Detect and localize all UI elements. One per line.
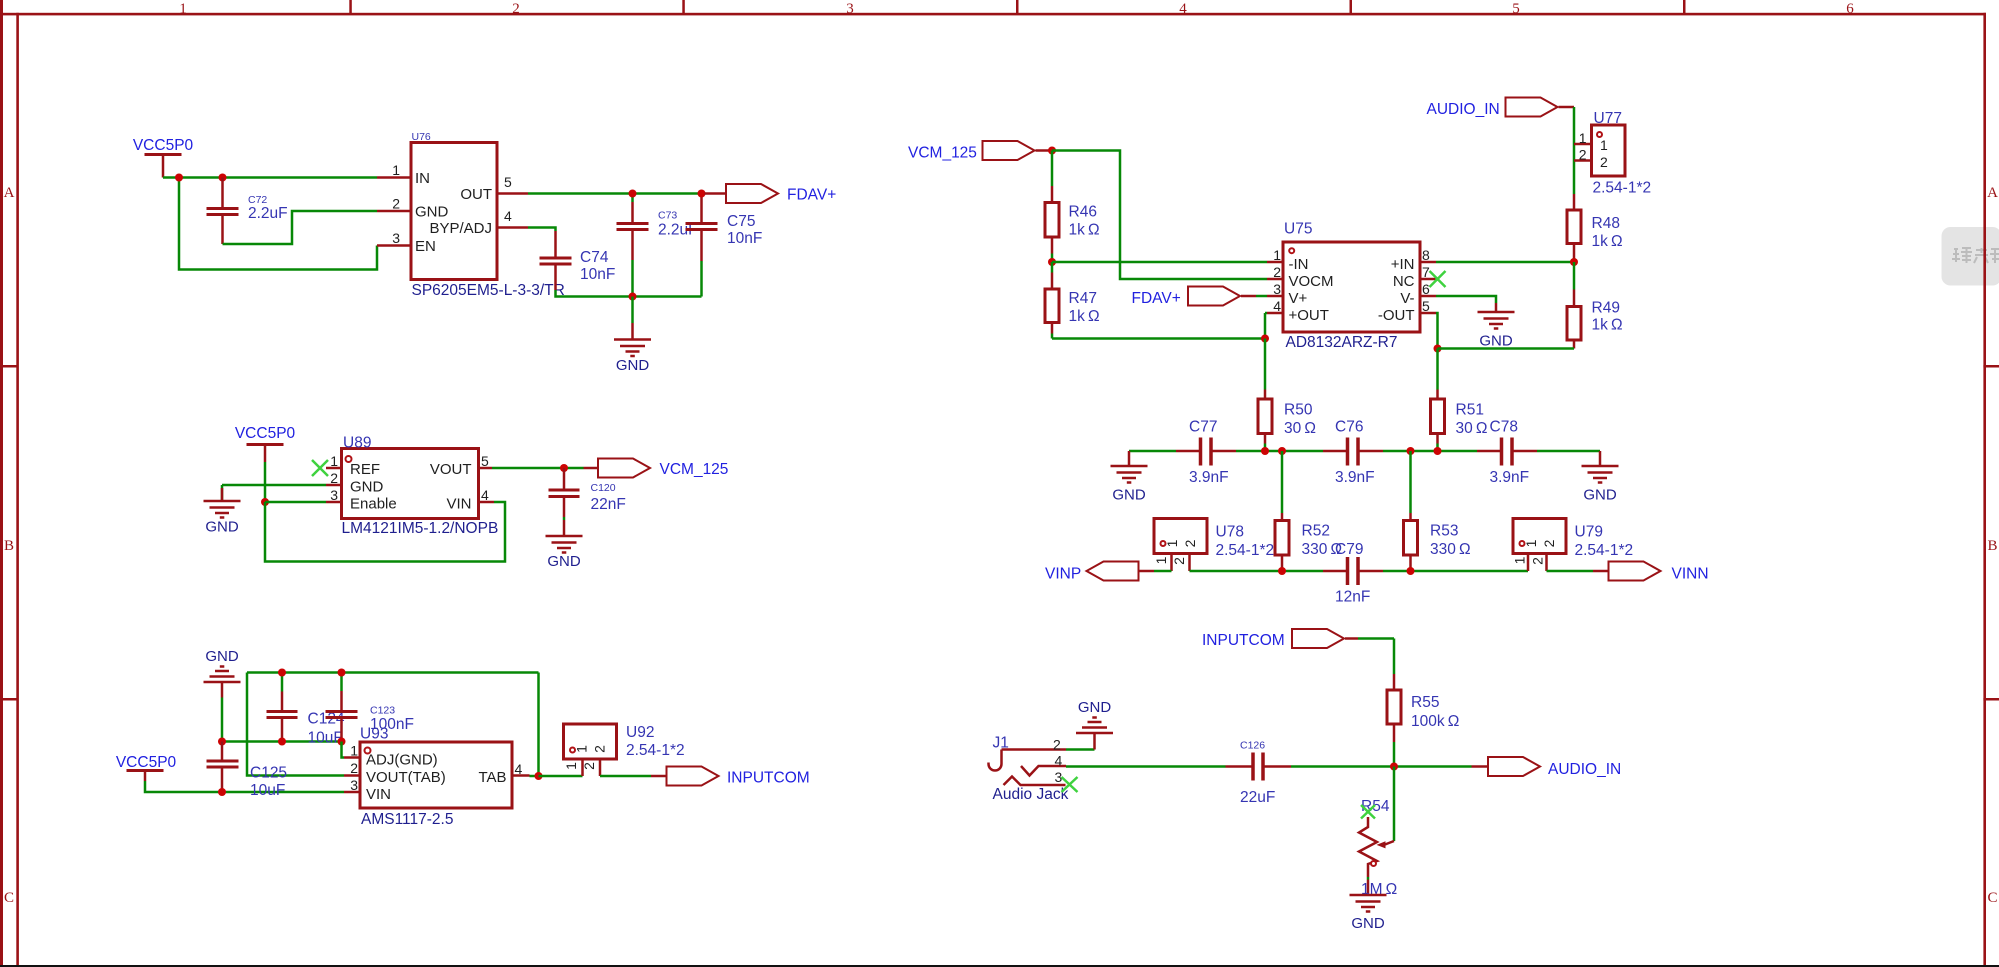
svg-text:R51: R51 (1456, 402, 1484, 419)
svg-text:3: 3 (392, 230, 400, 246)
ground GND (U89) (204, 488, 241, 536)
svg-text:INPUTCOM: INPUTCOM (1202, 632, 1285, 649)
wire GND to U89 pin2 (222, 485, 326, 500)
op-amp U93 (AMS1117-2.5) (344, 726, 530, 829)
svg-text:+IN: +IN (1391, 256, 1415, 273)
svg-text:4: 4 (1273, 298, 1281, 314)
port FDAV+ (output) (705, 184, 837, 204)
svg-text:C123: C123 (370, 705, 395, 717)
svg-text:GND: GND (1078, 699, 1112, 716)
wire INPUTCOM down to R55 (1393, 639, 1396, 675)
svg-text:GND: GND (415, 204, 449, 221)
wire VCC5P0 to VIN (145, 781, 344, 792)
ground GND (bus left) (1111, 451, 1148, 504)
svg-text:FDAV+: FDAV+ (787, 187, 836, 204)
svg-text:GND: GND (1479, 333, 1513, 350)
svg-text:R53: R53 (1430, 523, 1458, 540)
zone tick top 3/4 (1016, 0, 1019, 14)
svg-text:2: 2 (392, 196, 400, 212)
svg-text:R46: R46 (1069, 204, 1097, 221)
svg-text:VOUT: VOUT (430, 461, 472, 478)
junction bus/R52 (1278, 447, 1286, 455)
svg-text:2: 2 (350, 760, 358, 776)
svg-text:ADJ(GND): ADJ(GND) (366, 752, 438, 769)
frame inner right border redraw over toast (1983, 227, 1986, 286)
junction gnd bus (629, 293, 637, 301)
wire +OUT bus (1052, 313, 1267, 339)
svg-text:2.54-1*2: 2.54-1*2 (1216, 542, 1275, 559)
svg-text:2: 2 (581, 762, 597, 770)
power flag VCC5P0 (top-left) (133, 137, 194, 178)
no-connect X on U89 pin1 REF (312, 460, 328, 476)
svg-text:C126: C126 (1240, 740, 1265, 752)
svg-text:TAB: TAB (478, 769, 506, 786)
resistor R53 330R (1404, 451, 1471, 571)
connector U92 2.54-1*2 (563, 724, 685, 776)
svg-text:30 Ω: 30 Ω (1284, 420, 1316, 437)
zone tick right B/C (1983, 698, 1999, 701)
port VINP (output, tip left) (1045, 562, 1154, 583)
resistor R52 330R (1275, 451, 1342, 571)
svg-text:C120: C120 (591, 482, 616, 494)
svg-text:3: 3 (330, 487, 338, 503)
junction lineB/GND stem (218, 738, 226, 746)
svg-text:+OUT: +OUT (1289, 307, 1329, 324)
svg-text:3: 3 (846, 1, 854, 17)
svg-text:3: 3 (1273, 281, 1281, 297)
wire VINP to U78 pin1 (1154, 570, 1172, 573)
wire gnd line B (222, 740, 342, 743)
wire GND stem to bus (221, 698, 224, 742)
svg-text:INPUTCOM: INPUTCOM (727, 770, 810, 787)
port VCM_125 (input) (908, 141, 1052, 162)
svg-text:GND: GND (350, 479, 384, 496)
capacitor C74 10nF (540, 231, 616, 290)
svg-text:2: 2 (1600, 154, 1608, 170)
svg-text:1: 1 (574, 745, 590, 753)
svg-text:AD8132ARZ-R7: AD8132ARZ-R7 (1286, 334, 1398, 351)
junction gnd/C124 top (278, 669, 286, 677)
svg-text:VIN: VIN (366, 786, 391, 803)
svg-text:IN: IN (415, 170, 430, 187)
svg-text:REF: REF (350, 461, 380, 478)
zone tick left B/C (0, 698, 17, 701)
power flag VCC5P0 (U93) (116, 754, 177, 781)
wire VOUT to port (492, 467, 584, 470)
resistor R55 100k (1387, 674, 1459, 767)
svg-text:GND: GND (1583, 487, 1617, 504)
svg-text:B: B (1987, 538, 1997, 554)
svg-text:VINN: VINN (1672, 566, 1709, 583)
resistor R48 1k (1567, 194, 1623, 262)
svg-text:1: 1 (1523, 539, 1539, 547)
svg-text:VIN: VIN (446, 496, 471, 513)
svg-text:AUDIO_IN: AUDIO_IN (1548, 761, 1621, 778)
wire C123 junction to ADJ pin (342, 742, 345, 758)
svg-text:C77: C77 (1189, 419, 1217, 436)
svg-text:GND: GND (205, 648, 239, 665)
svg-text:330 Ω: 330 Ω (1430, 541, 1471, 558)
junction bus/R51 (1434, 447, 1442, 455)
svg-text:C73: C73 (658, 210, 677, 222)
wire junction to U92 pin1 (539, 775, 583, 778)
svg-text:VCM_125: VCM_125 (660, 461, 729, 478)
ground GND (R54) (1350, 895, 1387, 932)
junction R46/R47/-IN (1048, 258, 1056, 266)
ground GND (C120) (546, 536, 583, 570)
svg-text:1: 1 (1153, 556, 1169, 564)
wire V- to GND (1436, 296, 1496, 303)
svg-text:VINP: VINP (1045, 566, 1081, 583)
resistor R50 30R (1258, 339, 1316, 452)
svg-text:U92: U92 (626, 724, 654, 741)
svg-text:C79: C79 (1335, 541, 1363, 558)
svg-text:R50: R50 (1284, 402, 1313, 419)
svg-text:U75: U75 (1284, 221, 1312, 238)
svg-text:6: 6 (1846, 1, 1854, 17)
wire EN loop (VCC5P0 to U76 pin3) (179, 178, 377, 270)
svg-text:4: 4 (1179, 1, 1187, 17)
svg-text:2: 2 (1541, 539, 1557, 547)
wire U78 pin2 to C79 node (1190, 570, 1324, 573)
svg-text:22nF: 22nF (591, 496, 626, 513)
svg-text:Audio Jack: Audio Jack (993, 786, 1069, 803)
svg-text:FDAV+: FDAV+ (1132, 290, 1181, 307)
svg-text:1: 1 (179, 1, 187, 17)
svg-text:2.54-1*2: 2.54-1*2 (626, 742, 685, 759)
zone tick top 2/3 (682, 0, 685, 14)
svg-text:1: 1 (563, 762, 579, 770)
capacitor C77 3.9nF (1176, 419, 1236, 487)
svg-text:1: 1 (392, 162, 400, 178)
junction +OUT/R50 (1261, 335, 1269, 343)
svg-text:LM4121IM5-1.2/NOPB: LM4121IM5-1.2/NOPB (342, 520, 499, 537)
junction R55/audio bus (1390, 763, 1398, 771)
svg-text:1k Ω: 1k Ω (1069, 222, 1100, 239)
zone tick left A/B (0, 365, 17, 368)
resistor R54 1M (variable, zigzag) (1359, 798, 1397, 898)
wire gnd stem (631, 297, 634, 324)
svg-text:2.2uF: 2.2uF (248, 205, 288, 222)
resistor R46 1k (1045, 151, 1100, 263)
svg-text:3: 3 (350, 777, 358, 793)
svg-text:2: 2 (1053, 737, 1061, 753)
zone tick right A/B (1983, 365, 1999, 368)
svg-text:22uF: 22uF (1240, 789, 1275, 806)
ground GND (bus right) (1582, 451, 1619, 504)
junction gnd/C123 top (338, 669, 346, 677)
svg-text:OUT: OUT (460, 186, 492, 203)
frame outer left border (0, 0, 3, 966)
svg-text:10uF: 10uF (250, 782, 285, 799)
wire TAB to junction (530, 775, 539, 778)
svg-text:A: A (1987, 185, 1998, 201)
svg-text:VCC5P0: VCC5P0 (116, 754, 177, 771)
svg-text:AUDIO_IN: AUDIO_IN (1427, 101, 1500, 118)
capacitor C125 10uF (207, 742, 288, 800)
svg-text:1k Ω: 1k Ω (1592, 233, 1623, 250)
capacitor C73 2.2uF (617, 194, 698, 297)
svg-text:C: C (4, 890, 14, 906)
svg-text:VOUT(TAB): VOUT(TAB) (366, 769, 446, 786)
svg-text:1: 1 (350, 743, 358, 759)
svg-text:R55: R55 (1411, 694, 1439, 711)
svg-text:-IN: -IN (1289, 256, 1309, 273)
svg-text:2.54-1*2: 2.54-1*2 (1593, 180, 1652, 197)
svg-text:1: 1 (1512, 556, 1528, 564)
svg-text:2: 2 (1182, 539, 1198, 547)
zone tick top 4/5 (1350, 0, 1353, 14)
svg-text:3.9nF: 3.9nF (1335, 469, 1375, 486)
svg-text:SP6205EM5-L-3-3/TR: SP6205EM5-L-3-3/TR (412, 282, 565, 299)
wire junction down to R54 wiper (1393, 767, 1396, 842)
frame inner right border (1983, 13, 1986, 967)
svg-text:U76: U76 (412, 131, 431, 143)
svg-text:U77: U77 (1594, 110, 1622, 127)
wire top gnd bus (247, 673, 539, 777)
capacitor C72 2.2uF (207, 178, 288, 245)
svg-text:GND: GND (1112, 487, 1146, 504)
svg-text:R49: R49 (1592, 300, 1620, 317)
capacitor C75 10nF (686, 194, 763, 297)
wire +IN to R48 (1436, 261, 1574, 264)
svg-text:AMS1117-2.5: AMS1117-2.5 (361, 811, 453, 828)
capacitor C124 10uF (267, 673, 345, 747)
svg-text:12nF: 12nF (1335, 589, 1370, 606)
wire J1 pin2 to GND (1066, 748, 1095, 751)
wire VCC5P0 down to junction (264, 462, 267, 502)
junction TAB/gnd-bus (535, 772, 543, 780)
svg-text:C76: C76 (1335, 419, 1363, 436)
svg-text:100k Ω: 100k Ω (1411, 713, 1459, 730)
wire U76 BYP/ADJ to C74 (528, 228, 556, 232)
junction VCM/R46/VOCM (1048, 147, 1056, 155)
svg-text:10uF: 10uF (308, 730, 343, 747)
junction bus/R50 (1261, 447, 1269, 455)
junction R52/lower bus (1278, 567, 1286, 575)
svg-text:GND: GND (1351, 915, 1385, 932)
op-amp U76 (SP6205 regulator) (377, 131, 565, 299)
wire junction to Enable pin (265, 501, 326, 504)
svg-text:4: 4 (481, 487, 489, 503)
svg-text:1: 1 (1273, 247, 1281, 263)
wire C126 to AUDIO_IN port (1291, 765, 1472, 768)
svg-text:4: 4 (515, 761, 523, 777)
connector U78 2.54-1*2 (1153, 519, 1274, 572)
wire VIN loop (265, 502, 505, 562)
svg-text:1: 1 (1164, 539, 1180, 547)
capacitor C120 22nF (549, 468, 626, 536)
wire VCC5P0 to U76 pin1 (163, 176, 377, 179)
svg-text:2: 2 (1579, 147, 1587, 163)
no-connect X on J1 pin3 (1062, 777, 1078, 792)
svg-text:VCC5P0: VCC5P0 (133, 137, 194, 154)
capacitor C123 100nF (326, 673, 414, 742)
junction VCC wire / C125 (218, 788, 226, 796)
gray overlay toast box (request-signature) (1942, 227, 1999, 286)
resistor R49 1k (1567, 262, 1623, 349)
svg-text:NC: NC (1393, 273, 1415, 290)
port FDAV+ (input to V+) (1132, 287, 1268, 308)
wire -OUT bus to R49 (1438, 347, 1575, 350)
svg-text:A: A (4, 185, 15, 201)
junction lineB/C124 (278, 738, 286, 746)
svg-text:C75: C75 (727, 213, 755, 230)
svg-text:C78: C78 (1490, 419, 1518, 436)
resistor R51 30R (1431, 349, 1488, 452)
port INPUTCOM (left block output) (651, 767, 810, 787)
svg-text:30 Ω: 30 Ω (1456, 420, 1488, 437)
svg-text:GND: GND (616, 357, 650, 374)
svg-text:C74: C74 (580, 249, 609, 266)
svg-text:10nF: 10nF (727, 230, 762, 247)
svg-text:8: 8 (1422, 247, 1430, 263)
wire VOCM elbow (1052, 151, 1267, 280)
wire junction to -IN pin (1052, 261, 1267, 264)
wire U76 OUT to FDAV+ port (528, 192, 705, 195)
svg-text:BYP/ADJ: BYP/ADJ (429, 220, 492, 237)
wire J1 pin4 to C126 (1066, 765, 1226, 768)
svg-text:V+: V+ (1289, 290, 1308, 307)
junction OUT/C73 (629, 190, 637, 198)
port AUDIO_IN (input, top right) (1427, 98, 1575, 119)
svg-text:3.9nF: 3.9nF (1490, 469, 1530, 486)
svg-text:-OUT: -OUT (1378, 307, 1415, 324)
capacitor C126 22uF (1226, 740, 1292, 807)
svg-text:4: 4 (504, 208, 512, 224)
svg-text:R54: R54 (1361, 798, 1390, 815)
resistor R47 1k (1045, 262, 1100, 339)
svg-text:U79: U79 (1575, 524, 1603, 541)
svg-text:1: 1 (330, 453, 338, 469)
junction R53/lower bus (1407, 567, 1415, 575)
wire U92 pin2 to INPUTCOM port (600, 775, 651, 778)
wire C74 to gnd bus (556, 290, 702, 297)
frame bottom black line (0, 965, 1999, 967)
svg-text:Enable: Enable (350, 496, 397, 513)
frame inner top border (0, 13, 1986, 16)
junction lineB/C123 (338, 738, 346, 746)
svg-text:U93: U93 (360, 726, 388, 743)
svg-text:U89: U89 (343, 435, 371, 452)
svg-text:4: 4 (1055, 753, 1063, 769)
svg-text:1: 1 (1579, 130, 1587, 146)
svg-text:GND: GND (547, 553, 581, 570)
wire C79 to U79 pin1 (1383, 570, 1528, 573)
svg-text:U78: U78 (1216, 524, 1244, 541)
junction at C72 branch (219, 174, 227, 182)
svg-text:EN: EN (415, 238, 436, 255)
svg-text:B: B (4, 538, 14, 554)
svg-text:C: C (1987, 890, 1997, 906)
frame inner left border (16, 13, 19, 966)
svg-text:VCC5P0: VCC5P0 (235, 425, 296, 442)
svg-text:1k Ω: 1k Ω (1592, 317, 1623, 334)
svg-text:R47: R47 (1069, 290, 1097, 307)
port VINN (output, tip right) (1593, 562, 1709, 583)
capacitor C78 3.9nF (1477, 419, 1537, 487)
junction VCC/Enable/VIN (261, 498, 269, 506)
svg-text:2.54-1*2: 2.54-1*2 (1575, 542, 1634, 559)
svg-text:2: 2 (592, 745, 608, 753)
zone tick top 1/2 (349, 0, 352, 14)
svg-text:2: 2 (1530, 557, 1546, 565)
wire U79 pin2 to VINN (1547, 570, 1594, 573)
wire filter bus (y=451) (1129, 450, 1600, 453)
svg-text:2: 2 (512, 1, 520, 17)
ground GND inverted (J1) (1076, 699, 1113, 750)
capacitor C76 3.9nF (1323, 419, 1383, 487)
capacitor C79 12nF (1323, 541, 1383, 606)
wire VOUT(TAB) elbow (247, 673, 344, 776)
svg-text:3.9nF: 3.9nF (1189, 469, 1229, 486)
connector U77 2.54-1*2 (1574, 110, 1651, 197)
svg-text:VCM_125: VCM_125 (908, 145, 977, 162)
wire C72 to U76 pin2 GND (223, 211, 378, 244)
wire AUDIO_IN down to U77 (1573, 107, 1576, 194)
svg-text:1: 1 (1600, 137, 1608, 153)
junction +IN/R48/R49 (1570, 258, 1578, 266)
junction OUT/C75 (698, 190, 706, 198)
svg-text:2: 2 (1171, 557, 1187, 565)
svg-text:2: 2 (330, 470, 338, 486)
junction bus/R53 (1407, 447, 1415, 455)
ground GND (U75 V-) (1478, 303, 1515, 350)
svg-text:V-: V- (1400, 290, 1414, 307)
svg-text:5: 5 (504, 174, 512, 190)
port AUDIO_IN (output, bottom) (1472, 757, 1622, 778)
connector U79 2.54-1*2 (1512, 519, 1634, 572)
svg-text:5: 5 (481, 453, 489, 469)
svg-text:VOCM: VOCM (1289, 273, 1334, 290)
op-amp U75 (AD8132ARZ-R7) (1267, 221, 1438, 352)
svg-text:GND: GND (205, 519, 239, 536)
op-amp U89 (LM4121 reference) (326, 435, 498, 538)
junction at VCC/EN branch (175, 174, 183, 182)
power flag VCC5P0 (U89) (235, 425, 296, 462)
ground GND (U76 block) (614, 323, 651, 374)
svg-text:6: 6 (1422, 281, 1430, 297)
svg-text:R48: R48 (1592, 215, 1620, 232)
svg-text:3: 3 (1055, 769, 1063, 785)
connector J1 Audio Jack (989, 735, 1069, 804)
svg-text:5: 5 (1512, 1, 1520, 17)
port INPUTCOM (input, right block) (1202, 629, 1394, 649)
svg-text:5: 5 (1422, 298, 1430, 314)
junction VOUT/C120 (560, 464, 568, 472)
svg-text:C125: C125 (250, 765, 287, 782)
wire -OUT elbow down (1436, 313, 1438, 349)
svg-text:R52: R52 (1302, 523, 1330, 540)
port VCM_125 (output of U89) (584, 459, 729, 479)
ground GND inverted (U93 top) (204, 648, 241, 698)
svg-text:10nF: 10nF (580, 266, 615, 283)
junction -OUT/R51 (1434, 345, 1442, 353)
no-connect X on U75 NC pin (1430, 271, 1446, 287)
svg-text:2: 2 (1273, 264, 1281, 280)
zone tick top 5/6 (1683, 0, 1686, 14)
svg-text:1k Ω: 1k Ω (1069, 308, 1100, 325)
